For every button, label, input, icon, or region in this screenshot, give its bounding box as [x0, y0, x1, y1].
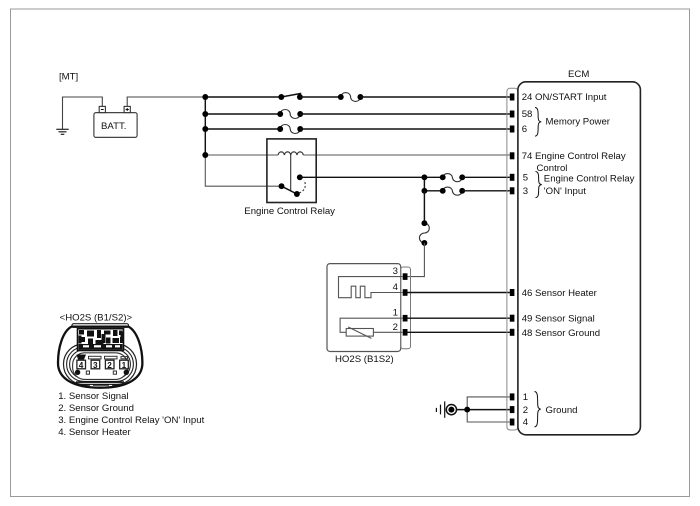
connector outer housing	[58, 327, 142, 388]
brace Ground	[535, 392, 541, 427]
battery BATT.	[94, 106, 137, 137]
relay switch contacts	[279, 174, 306, 197]
wire row1 bus to ignition switch	[205, 96, 281, 98]
fuse row6	[440, 187, 465, 195]
svg-text:1. Sensor Signal: 1. Sensor Signal	[58, 391, 128, 402]
svg-text:Ground: Ground	[546, 405, 578, 416]
fuse row2	[277, 110, 303, 119]
svg-text:48 Sensor Ground: 48 Sensor Ground	[522, 328, 600, 339]
connector key slots	[77, 355, 87, 360]
svg-text:1: 1	[523, 392, 528, 403]
HO2S pin numbers	[393, 266, 399, 333]
fuse vertical	[419, 220, 429, 246]
HO2S pins	[403, 273, 408, 335]
svg-text:2: 2	[523, 405, 528, 416]
wire pin3 row	[424, 190, 442, 192]
svg-text:4: 4	[523, 417, 529, 428]
wire relay coil to ECM pin 74	[303, 154, 510, 156]
svg-text:49 Sensor Signal: 49 Sensor Signal	[522, 313, 595, 324]
wire HO2S pin2 to ECM pin 48	[408, 331, 510, 333]
connector bottom marks	[76, 381, 124, 385]
svg-text:4: 4	[79, 361, 84, 370]
HO2S sensing element (thermistor)	[340, 318, 402, 338]
wire fuse to ECM pin 5	[462, 176, 510, 178]
wire fuse to ECM pin 3	[462, 190, 510, 192]
wire fuse row1 to ECM pin 24	[360, 96, 509, 98]
wire switch to fuse row1	[300, 96, 341, 98]
relay box Engine Control Relay	[267, 139, 316, 203]
ignition switch	[278, 93, 303, 100]
wire junction drop to pin3 row	[423, 177, 425, 191]
relay coil L	[278, 152, 303, 155]
ECM pin labels	[522, 92, 635, 428]
wire drop to vertical fuse	[423, 191, 425, 223]
svg-text:58: 58	[522, 109, 533, 120]
connector cavity	[73, 353, 128, 380]
chassis ground symbol	[436, 401, 456, 417]
wire fuse row2 to ECM pin 58	[300, 113, 510, 115]
svg-text:Control: Control	[537, 163, 568, 174]
wire main vertical bus	[204, 97, 206, 155]
HO2S connector face drawing	[58, 324, 142, 388]
ground (battery negative)	[56, 129, 68, 134]
svg-text:1: 1	[393, 308, 398, 319]
svg-text:3: 3	[523, 186, 528, 197]
svg-text:HO2S (B1S2): HO2S (B1S2)	[335, 354, 394, 365]
legend pin functions	[58, 391, 204, 438]
svg-text:BATT.: BATT.	[101, 121, 126, 132]
wire row2 bus to fuse	[205, 113, 280, 115]
junction dots on bus	[202, 94, 208, 100]
wire HO2S pin4 to ECM pin 46	[408, 292, 510, 294]
svg-text:<HO2S (B1/S2)>: <HO2S (B1/S2)>	[60, 312, 133, 323]
svg-text:Engine Control Relay: Engine Control Relay	[244, 206, 335, 217]
svg-text:3: 3	[393, 266, 398, 277]
junction dot ground	[464, 407, 470, 413]
connector terminal 2	[105, 360, 114, 370]
wire battery negative to ground	[63, 97, 103, 129]
wire relay to junction pin5 row	[300, 176, 443, 178]
svg-text:1: 1	[122, 361, 127, 370]
wire battery positive to bus	[127, 97, 205, 106]
svg-text:Engine Control Relay: Engine Control Relay	[544, 174, 635, 185]
wire fuse row3 to ECM pin 6	[300, 128, 510, 130]
wire row4 bus to relay coil	[205, 154, 278, 156]
svg-text:4. Sensor Heater: 4. Sensor Heater	[58, 427, 131, 438]
svg-text:4: 4	[393, 282, 399, 293]
fuse row1	[338, 93, 364, 102]
svg-text:ECM: ECM	[568, 69, 589, 80]
svg-text:'ON' Input: 'ON' Input	[544, 186, 586, 197]
svg-text:74 Engine Control Relay: 74 Engine Control Relay	[522, 151, 626, 162]
HO2S (B1S2) box	[327, 264, 401, 352]
connector bolts	[75, 370, 80, 375]
ECM connector strip	[507, 88, 518, 430]
wire ground to ECM pin 2	[456, 409, 509, 411]
svg-text:24 ON/START Input: 24 ON/START Input	[522, 92, 607, 103]
connector terminal 4	[77, 360, 86, 370]
wire ground branch	[467, 397, 510, 422]
wire row3 bus to fuse	[205, 128, 280, 130]
HO2S heater element	[339, 277, 403, 298]
brace Memory Power	[535, 108, 541, 137]
wire bus to relay switch	[205, 155, 281, 187]
svg-text:46 Sensor Heater: 46 Sensor Heater	[522, 288, 598, 299]
svg-text:2: 2	[107, 361, 112, 370]
connector small squares	[86, 371, 89, 374]
svg-text:3: 3	[93, 361, 98, 370]
svg-text:Memory Power: Memory Power	[546, 117, 611, 128]
fuse row3	[277, 125, 303, 134]
ECM box	[518, 82, 641, 435]
fuse row5	[440, 174, 465, 182]
svg-text:6: 6	[522, 124, 527, 135]
wire HO2S pin1 to ECM pin 49	[408, 317, 510, 319]
svg-text:[MT]: [MT]	[59, 72, 78, 83]
connector terminal 3	[91, 360, 100, 370]
HO2S connector strip	[401, 267, 411, 349]
connector top bar	[72, 324, 129, 328]
connector latch hatched block	[78, 329, 124, 351]
connector rings	[64, 344, 137, 384]
ECM pins	[510, 94, 515, 426]
svg-text:2. Sensor Ground: 2. Sensor Ground	[58, 403, 134, 414]
brace Engine Control Relay ON Input	[536, 172, 542, 198]
relay plunger line	[290, 155, 292, 191]
svg-text:3. Engine Control Relay 'ON' I: 3. Engine Control Relay 'ON' Input	[58, 415, 204, 426]
connector terminal 1	[120, 360, 129, 370]
svg-text:2: 2	[393, 322, 398, 333]
svg-text:5: 5	[523, 173, 528, 184]
wire fuse to HO2S pin 3	[408, 243, 425, 277]
